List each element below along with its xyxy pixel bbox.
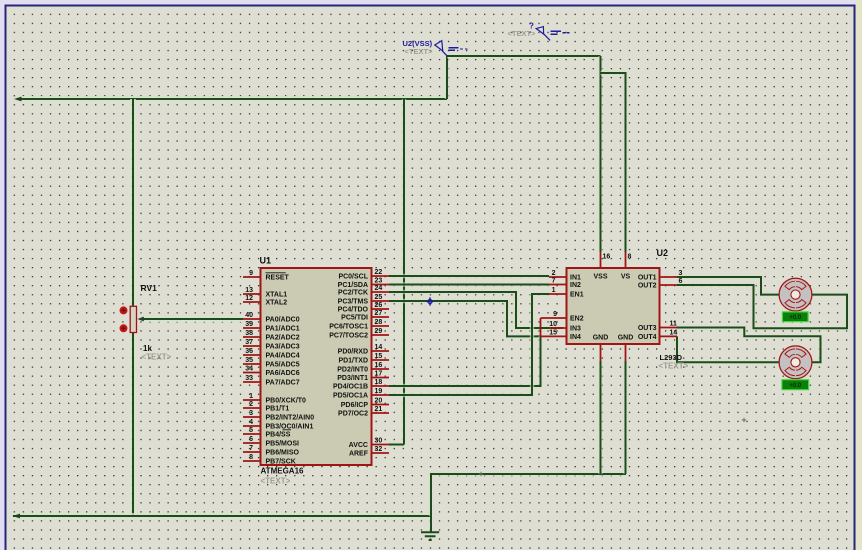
wire PC1/SDA to IN2 [389, 282, 549, 286]
svg-text:37: 37 [245, 339, 253, 346]
wire PD5/OC1A to EN1 [389, 294, 549, 395]
wire AVCC riser [389, 99, 404, 445]
svg-text:18: 18 [375, 379, 383, 386]
wire PC3/TMS to IN4 node [389, 301, 541, 336]
svg-text:PA6/ADC6: PA6/ADC6 [266, 370, 300, 377]
svg-text:<TEXT>: <TEXT> [659, 362, 689, 371]
svg-text:PA1/ADC1: PA1/ADC1 [266, 326, 300, 333]
svg-text:<TEXT>: <TEXT> [261, 477, 291, 486]
svg-text:GND: GND [593, 335, 609, 342]
svg-text:PA4/ADC4: PA4/ADC4 [266, 353, 300, 360]
svg-text:23: 23 [375, 278, 383, 285]
svg-text:PB6/MISO: PB6/MISO [266, 450, 300, 457]
potentiometer RV1 [130, 306, 136, 332]
svg-text:PD0/RXD: PD0/RXD [338, 349, 368, 356]
RV1 increment button [120, 306, 128, 314]
svg-text:PB4/SS: PB4/SS [266, 432, 291, 439]
svg-text:PA5/ADC5: PA5/ADC5 [266, 362, 300, 369]
wire VSS rail riser to power terminal [445, 56, 449, 99]
wire VSS power rail top [21, 96, 447, 102]
svg-text:34: 34 [245, 366, 253, 373]
svg-text:35: 35 [245, 357, 253, 364]
wire end arrow top rail [14, 97, 22, 102]
wire PC2/TCK to IN3 [389, 292, 563, 328]
wire OUT4 to motor M2 + [677, 336, 779, 362]
svg-text:AVCC: AVCC [349, 442, 368, 449]
svg-text:OUT2: OUT2 [638, 283, 657, 290]
power terminal ? (floating) [536, 27, 569, 41]
svg-text:9: 9 [553, 311, 557, 318]
wire VSS horizontal to U2 [447, 54, 601, 58]
svg-text:PD1/TXD: PD1/TXD [338, 358, 368, 365]
svg-text:PD4/OC1B: PD4/OC1B [333, 384, 368, 391]
svg-text:PC6/TOSC1: PC6/TOSC1 [329, 324, 368, 331]
wire ground return to U2 [431, 474, 626, 516]
svg-text:<TEXT>: <TEXT> [142, 353, 172, 362]
svg-text:PA0/ADC0: PA0/ADC0 [266, 317, 300, 324]
svg-text:3: 3 [249, 410, 253, 417]
svg-text:+0.0: +0.0 [789, 383, 802, 389]
svg-text:10: 10 [549, 321, 557, 328]
driver U2 L293D [541, 252, 683, 361]
svg-text:PC7/TOSC2: PC7/TOSC2 [329, 333, 368, 340]
wire RV1 top terminal [130, 99, 136, 306]
svg-text:14: 14 [670, 330, 678, 337]
svg-text:PB1/T1: PB1/T1 [266, 406, 290, 413]
svg-text:PD5/OC1A: PD5/OC1A [333, 393, 368, 400]
wiper arrowhead [137, 317, 143, 322]
svg-text:PB0/XCK/T0: PB0/XCK/T0 [266, 398, 307, 405]
svg-text:38: 38 [245, 330, 253, 337]
svg-text:15: 15 [549, 330, 557, 337]
svg-text:16: 16 [603, 254, 611, 261]
wire PD4/OC1B to EN2/IN4 node [389, 336, 541, 386]
svg-text:VS: VS [621, 274, 631, 281]
node marker (blue cross) [426, 297, 433, 305]
svg-text:RESET: RESET [266, 275, 290, 282]
svg-text:IN1: IN1 [570, 275, 581, 282]
svg-text:8: 8 [249, 454, 253, 461]
svg-text:7: 7 [249, 445, 253, 452]
svg-text:IN4: IN4 [570, 334, 581, 341]
wire ground rail bottom [13, 513, 431, 519]
svg-text:<TEXT>: <TEXT> [508, 29, 537, 38]
svg-text:11: 11 [670, 321, 678, 328]
svg-text:20: 20 [375, 398, 383, 405]
svg-text:PD7/OC2: PD7/OC2 [338, 411, 368, 418]
motor M2 [779, 346, 812, 379]
svg-text:U2: U2 [657, 248, 669, 258]
svg-text:15: 15 [375, 353, 383, 360]
wire end arrow bottom rail [13, 514, 21, 519]
wire VSS vertical to U2 pin 16 [598, 56, 602, 252]
svg-text:PC1/SDA: PC1/SDA [338, 282, 368, 289]
svg-text:PA7/ADC7: PA7/ADC7 [266, 380, 300, 387]
svg-text:GND: GND [618, 335, 634, 342]
wire OUT2 to motor M1 - [677, 285, 847, 328]
origin cross marker A [479, 472, 483, 476]
svg-text:VSS: VSS [593, 274, 607, 281]
motor M1 readout box [782, 311, 809, 322]
EN2-IN4 red strap [540, 318, 542, 336]
wire VS branch to U2 pin 8 [601, 73, 626, 252]
RV1 decrement button [120, 324, 128, 332]
svg-text:EN2: EN2 [570, 316, 584, 323]
svg-text:PA3/ADC3: PA3/ADC3 [266, 344, 300, 351]
svg-text:24: 24 [375, 285, 383, 292]
svg-text:6: 6 [249, 436, 253, 443]
svg-text:<TEXT>: <TEXT> [405, 47, 434, 56]
svg-text:PD6/ICP: PD6/ICP [341, 402, 369, 409]
svg-text:33: 33 [245, 375, 253, 382]
svg-text:9: 9 [249, 270, 253, 277]
svg-text:PC3/TMS: PC3/TMS [338, 299, 369, 306]
svg-text:PC0/SCL: PC0/SCL [338, 274, 368, 281]
svg-text:ATMEGA16: ATMEGA16 [261, 467, 305, 476]
svg-text:7: 7 [552, 278, 556, 285]
wire RV1 wiper to PA0 [142, 316, 243, 322]
svg-text:32: 32 [375, 446, 383, 453]
wire PC0/SCL to IN1 [389, 274, 549, 278]
svg-text:30: 30 [375, 438, 383, 445]
svg-text:12: 12 [245, 295, 253, 302]
svg-text:PB2/INT2/AIN0: PB2/INT2/AIN0 [266, 415, 315, 422]
svg-text:PC5/TDI: PC5/TDI [341, 315, 368, 322]
svg-text:19: 19 [375, 388, 383, 395]
svg-text:29: 29 [375, 328, 383, 335]
svg-text:PB5/MOSI: PB5/MOSI [266, 441, 300, 448]
svg-text:XTAL1: XTAL1 [266, 292, 288, 299]
svg-text:2: 2 [552, 270, 556, 277]
motor M2 readout box [781, 379, 809, 390]
power terminal U2(VSS) [435, 41, 468, 57]
wire U2 GND pin 1 drop [598, 361, 602, 474]
svg-text:14: 14 [375, 344, 383, 351]
wire RV1 bottom terminal to ground rail [130, 333, 136, 516]
svg-text:U1: U1 [260, 256, 272, 266]
motor M1 [779, 278, 812, 311]
svg-text:RV1: RV1 [141, 283, 158, 293]
svg-text:1: 1 [249, 393, 253, 400]
svg-text:PC2/TCK: PC2/TCK [338, 290, 368, 297]
svg-text:IN3: IN3 [570, 326, 581, 333]
wire OUT1 to motor M1 + [677, 277, 779, 295]
svg-text:+0.0: +0.0 [789, 315, 802, 321]
svg-text:2: 2 [249, 401, 253, 408]
svg-text:8: 8 [628, 254, 632, 261]
svg-text:28: 28 [375, 319, 383, 326]
svg-text:PB7/SCK: PB7/SCK [266, 459, 296, 466]
microcontroller U1 ATMEGA16 [243, 268, 389, 466]
svg-text:OUT4: OUT4 [638, 334, 657, 341]
origin cross marker B [742, 418, 746, 422]
svg-text:22: 22 [375, 269, 383, 276]
svg-text:26: 26 [375, 302, 383, 309]
svg-text:OUT1: OUT1 [638, 275, 657, 282]
svg-text:27: 27 [375, 310, 383, 317]
svg-text:25: 25 [375, 294, 383, 301]
svg-text:36: 36 [245, 348, 253, 355]
svg-text:XTAL2: XTAL2 [266, 300, 288, 307]
svg-text:PD2/INT0: PD2/INT0 [337, 367, 368, 374]
svg-text:17: 17 [375, 371, 383, 378]
svg-text:3: 3 [679, 270, 683, 277]
svg-text:IN2: IN2 [570, 282, 581, 289]
svg-text:PD3/INT1: PD3/INT1 [337, 375, 368, 382]
svg-text:40: 40 [245, 312, 253, 319]
svg-text:39: 39 [245, 321, 253, 328]
wire U2 GND pin 2 drop [623, 361, 627, 474]
svg-text:4: 4 [249, 419, 253, 426]
svg-text:16: 16 [375, 362, 383, 369]
svg-text:PC4/TDO: PC4/TDO [338, 307, 369, 314]
svg-text:AREF: AREF [349, 451, 369, 458]
svg-text:5: 5 [249, 427, 253, 434]
svg-text:EN1: EN1 [570, 292, 584, 299]
svg-text:21: 21 [375, 406, 383, 413]
ground [421, 516, 439, 540]
wire OUT3 to motor M2 - [677, 328, 821, 363]
svg-text:PA2/ADC2: PA2/ADC2 [266, 335, 300, 342]
svg-text:6: 6 [679, 278, 683, 285]
svg-text:OUT3: OUT3 [638, 325, 657, 332]
svg-text:13: 13 [245, 287, 253, 294]
svg-text:1: 1 [552, 287, 556, 294]
